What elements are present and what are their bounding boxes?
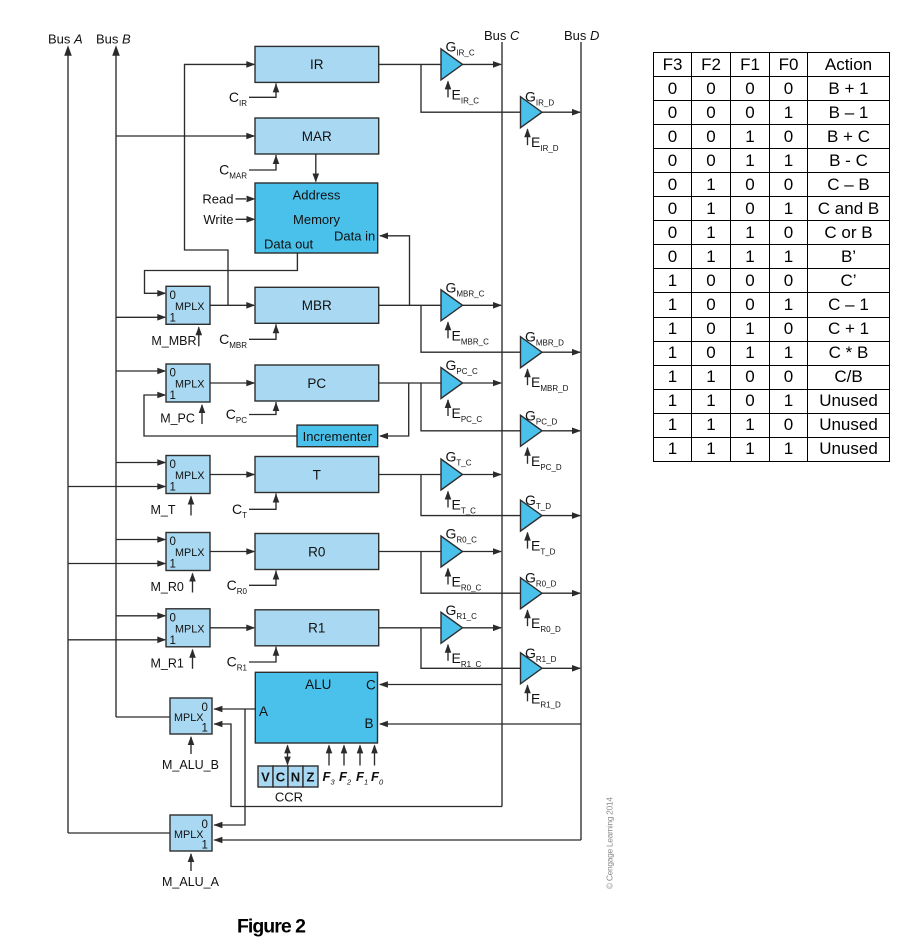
signal M_PC [201,405,203,424]
wire MPLX_PC to PC [210,382,254,384]
svg-text:B: B [365,716,374,731]
wire R1 output [379,627,441,629]
svg-text:Bus B: Bus B [96,32,131,47]
svg-text:CMBR: CMBR [219,331,247,350]
svg-text:CT: CT [232,501,247,520]
svg-text:CCR: CCR [275,790,303,805]
svg-text:R0: R0 [308,544,325,559]
memory [255,183,378,253]
svg-text:1: 1 [170,312,176,324]
svg-text:© Cengage Learning 2014: © Cengage Learning 2014 [605,797,615,889]
svg-text:MPLX: MPLX [175,301,204,313]
svg-text:M_MBR: M_MBR [151,334,196,348]
wire Bus D to ALU B input [380,723,581,725]
wire R0 output [379,551,441,553]
svg-text:1: 1 [170,482,176,494]
svg-text:ET_C: ET_C [452,497,477,516]
svg-text:MAR: MAR [302,129,332,144]
wire Bus B to MPLX_R0 input 0 [116,539,165,541]
wire ALU to CCR [287,746,289,765]
wire Bus D to MPLX_ALU_A input 1 [214,839,581,841]
svg-text:Bus A: Bus A [48,32,83,47]
svg-text:F3: F3 [323,769,336,787]
tri-state buffer G_MBR_D [521,337,543,368]
wire MBR line to memory data in [380,236,410,305]
tri-state buffer G_T_C [441,459,463,490]
wire incrementer to MPLX_PC input 1 [144,395,297,436]
svg-text:1: 1 [170,559,176,571]
svg-text:MBR: MBR [302,298,332,313]
tri-state buffer G_PC_D [521,415,543,446]
wire G_IR_C to Bus C [462,63,501,65]
svg-text:C: C [366,678,376,693]
wire MPLX_ALU_B to Bus B [116,716,170,718]
signal M_R0 [192,574,194,593]
svg-text:MPLX: MPLX [175,623,204,635]
enable E_T_D [527,533,529,549]
wire MPLX_ALU_A to Bus A [68,832,170,834]
svg-text:1: 1 [170,635,176,647]
register MAR [255,118,379,154]
svg-text:MPLX: MPLX [175,470,204,482]
enable E_T_C [447,492,449,508]
wire MBR input line to IR [185,64,255,305]
wire G_PC_C to Bus C [462,382,501,384]
svg-text:M_R0: M_R0 [151,580,184,594]
svg-text:Read: Read [202,191,233,206]
tri-state buffer G_IR_C [441,49,463,80]
wire G_R1_D to Bus D [542,667,581,669]
wire Bus A to MPLX_T input 1 [68,486,165,488]
enable E_MBR_C [447,322,449,338]
control F3 [328,746,330,766]
svg-text:CIR: CIR [229,89,247,108]
wire G_IR_D to Bus D [542,111,581,113]
wire Bus B to MPLX_T input 0 [116,462,165,464]
tri-state buffer G_MBR_C [441,290,463,321]
register MBR [255,287,379,323]
svg-text:1: 1 [202,840,208,852]
enable E_PC_C [447,400,449,416]
svg-text:R1: R1 [308,621,325,636]
svg-text:ER1_C: ER1_C [452,650,482,669]
wire Bus B to MAR [116,135,254,137]
mux MPLX_ALU_A [170,815,212,851]
signal M_ALU_A [190,854,192,871]
wire MPLX_R1 to R1 [210,627,254,629]
tri-state buffer G_R1_D [521,653,543,684]
register R1 [255,610,379,646]
svg-text:M_PC: M_PC [160,412,195,426]
wire MBR output to G_MBR_D [421,305,521,352]
wire G_T_D to Bus D [542,515,581,517]
wire MAR to memory address [315,154,317,182]
function table [653,52,890,462]
svg-text:F0: F0 [371,769,384,787]
mux MPLX_MBR [166,286,210,324]
wire Bus C to MPLX_ALU_B input 1 [214,724,502,807]
incrementer [297,425,378,447]
wire PC output to G_PC_D [421,383,521,431]
svg-text:Z: Z [307,770,315,785]
svg-text:Bus C: Bus C [484,28,520,43]
wire Bus A to MPLX_R1 input 1 [68,639,165,641]
svg-text:MPLX: MPLX [174,712,203,724]
wire T output to G_T_D [421,475,521,516]
mux MPLX_ALU_B [170,698,212,734]
wire G_R1_C to Bus C [462,627,501,629]
enable E_R1_C [447,645,449,661]
svg-text:IR: IR [310,57,324,72]
wire G_R0_C to Bus C [462,551,501,553]
wire IR output [379,63,441,65]
svg-text:EIR_D: EIR_D [531,134,559,153]
svg-text:Figure 2: Figure 2 [237,916,306,938]
svg-text:1: 1 [170,390,176,402]
svg-text:ER0_C: ER0_C [452,574,482,593]
control F1 [359,746,361,766]
wire R1 output to G_R1_D [421,628,521,669]
svg-text:T: T [313,467,321,482]
svg-text:N: N [291,770,300,785]
wire Bus B to MPLX_PC input 0 [116,370,165,372]
enable E_IR_C [447,81,449,97]
wire T output [379,474,441,476]
mux MPLX_T [166,456,210,494]
svg-text:Bus D: Bus D [564,28,599,43]
svg-text:A: A [259,704,268,719]
wire ALU A output to MPLX_ALU_B input 0 [214,708,255,710]
svg-text:1: 1 [202,723,208,735]
wire Bus B to MPLX_R1 input 0 [116,615,165,617]
svg-text:ALU: ALU [305,677,331,692]
wire MPLX_MBR to MBR [210,304,254,306]
svg-text:Data out: Data out [264,236,314,251]
wire Bus B to MPLX_MBR input 1 [116,316,165,318]
svg-text:MPLX: MPLX [175,379,204,391]
svg-text:ET_D: ET_D [531,538,556,557]
tri-state buffer G_R0_D [521,578,543,609]
signal M_T [190,497,192,516]
svg-text:M_T: M_T [151,503,176,517]
svg-text:EPC_C: EPC_C [452,405,483,424]
svg-text:EPC_D: EPC_D [531,453,562,472]
tri-state buffer G_PC_C [441,368,463,399]
mux MPLX_R0 [166,533,210,571]
enable E_IR_D [527,129,529,145]
signal M_MBR [198,327,200,346]
wire MPLX_R0 to R0 [210,551,254,553]
control F2 [343,746,345,766]
svg-text:C: C [276,770,286,785]
svg-text:V: V [261,770,270,785]
enable E_R1_D [527,685,529,701]
svg-text:Incrementer: Incrementer [303,429,373,444]
wire G_PC_D to Bus D [542,430,581,432]
svg-text:MPLX: MPLX [175,547,204,559]
svg-text:Address: Address [293,188,341,203]
svg-text:EMBR_D: EMBR_D [531,374,569,393]
svg-text:F2: F2 [339,769,352,787]
enable E_R0_C [447,569,449,585]
wire PC output to incrementer [380,383,409,436]
svg-text:CR0: CR0 [227,577,248,596]
wire MPLX_T to T [210,474,254,476]
ALU [255,672,377,743]
wire MBR output [379,304,441,306]
svg-text:ER1_D: ER1_D [531,690,561,709]
signal M_R1 [192,650,194,669]
wire G_MBR_D to Bus D [542,351,581,353]
svg-text:F1: F1 [356,769,368,787]
wire Bus A to MPLX_R0 input 1 [68,563,165,565]
wire PC output [379,382,441,384]
enable E_PC_D [527,448,529,464]
wire IR output to G_IR_D [421,64,521,112]
mux MPLX_PC [166,364,210,402]
enable E_R0_D [527,610,529,626]
register IR [255,46,379,82]
svg-text:GMBR_C: GMBR_C [446,279,485,298]
signal M_ALU_B [190,737,192,754]
tri-state buffer G_T_D [521,500,543,531]
svg-text:M_ALU_B: M_ALU_B [162,758,219,772]
wire ALU A output to MPLX_ALU_A input 0 [214,709,245,825]
CCR register [258,766,273,787]
svg-text:M_ALU_A: M_ALU_A [162,875,220,889]
svg-text:MPLX: MPLX [174,829,203,841]
wire Bus C to ALU C input [380,684,502,686]
enable E_MBR_D [527,369,529,385]
register T [255,457,379,493]
svg-text:CPC: CPC [226,406,247,425]
svg-text:GPC_C: GPC_C [446,357,478,376]
svg-text:GR0_C: GR0_C [446,526,478,545]
svg-text:EIR_C: EIR_C [452,86,480,105]
mux MPLX_R1 [166,609,210,647]
wire memory data out to MPLX_MBR input 0 [145,253,298,293]
svg-text:EMBR_C: EMBR_C [452,327,490,346]
control F0 [374,746,376,766]
wire G_R0_D to Bus D [542,592,581,594]
svg-text:M_R1: M_R1 [151,656,184,670]
svg-text:Memory: Memory [293,212,340,227]
wire G_MBR_C to Bus C [462,304,501,306]
svg-text:CR1: CR1 [227,654,248,673]
svg-text:GR1_C: GR1_C [446,602,478,621]
svg-text:CMAR: CMAR [219,162,247,181]
tri-state buffer G_IR_D [521,97,543,128]
svg-text:PC: PC [307,376,326,391]
register PC [255,365,379,401]
wire R0 output to G_R0_D [421,552,521,594]
svg-text:Write: Write [203,212,233,227]
wire G_T_C to Bus C [462,474,501,476]
svg-text:ER0_D: ER0_D [531,615,561,634]
tri-state buffer G_R0_C [441,536,463,567]
tri-state buffer G_R1_C [441,612,463,643]
register R0 [255,534,379,570]
svg-text:Data in: Data in [334,229,375,244]
